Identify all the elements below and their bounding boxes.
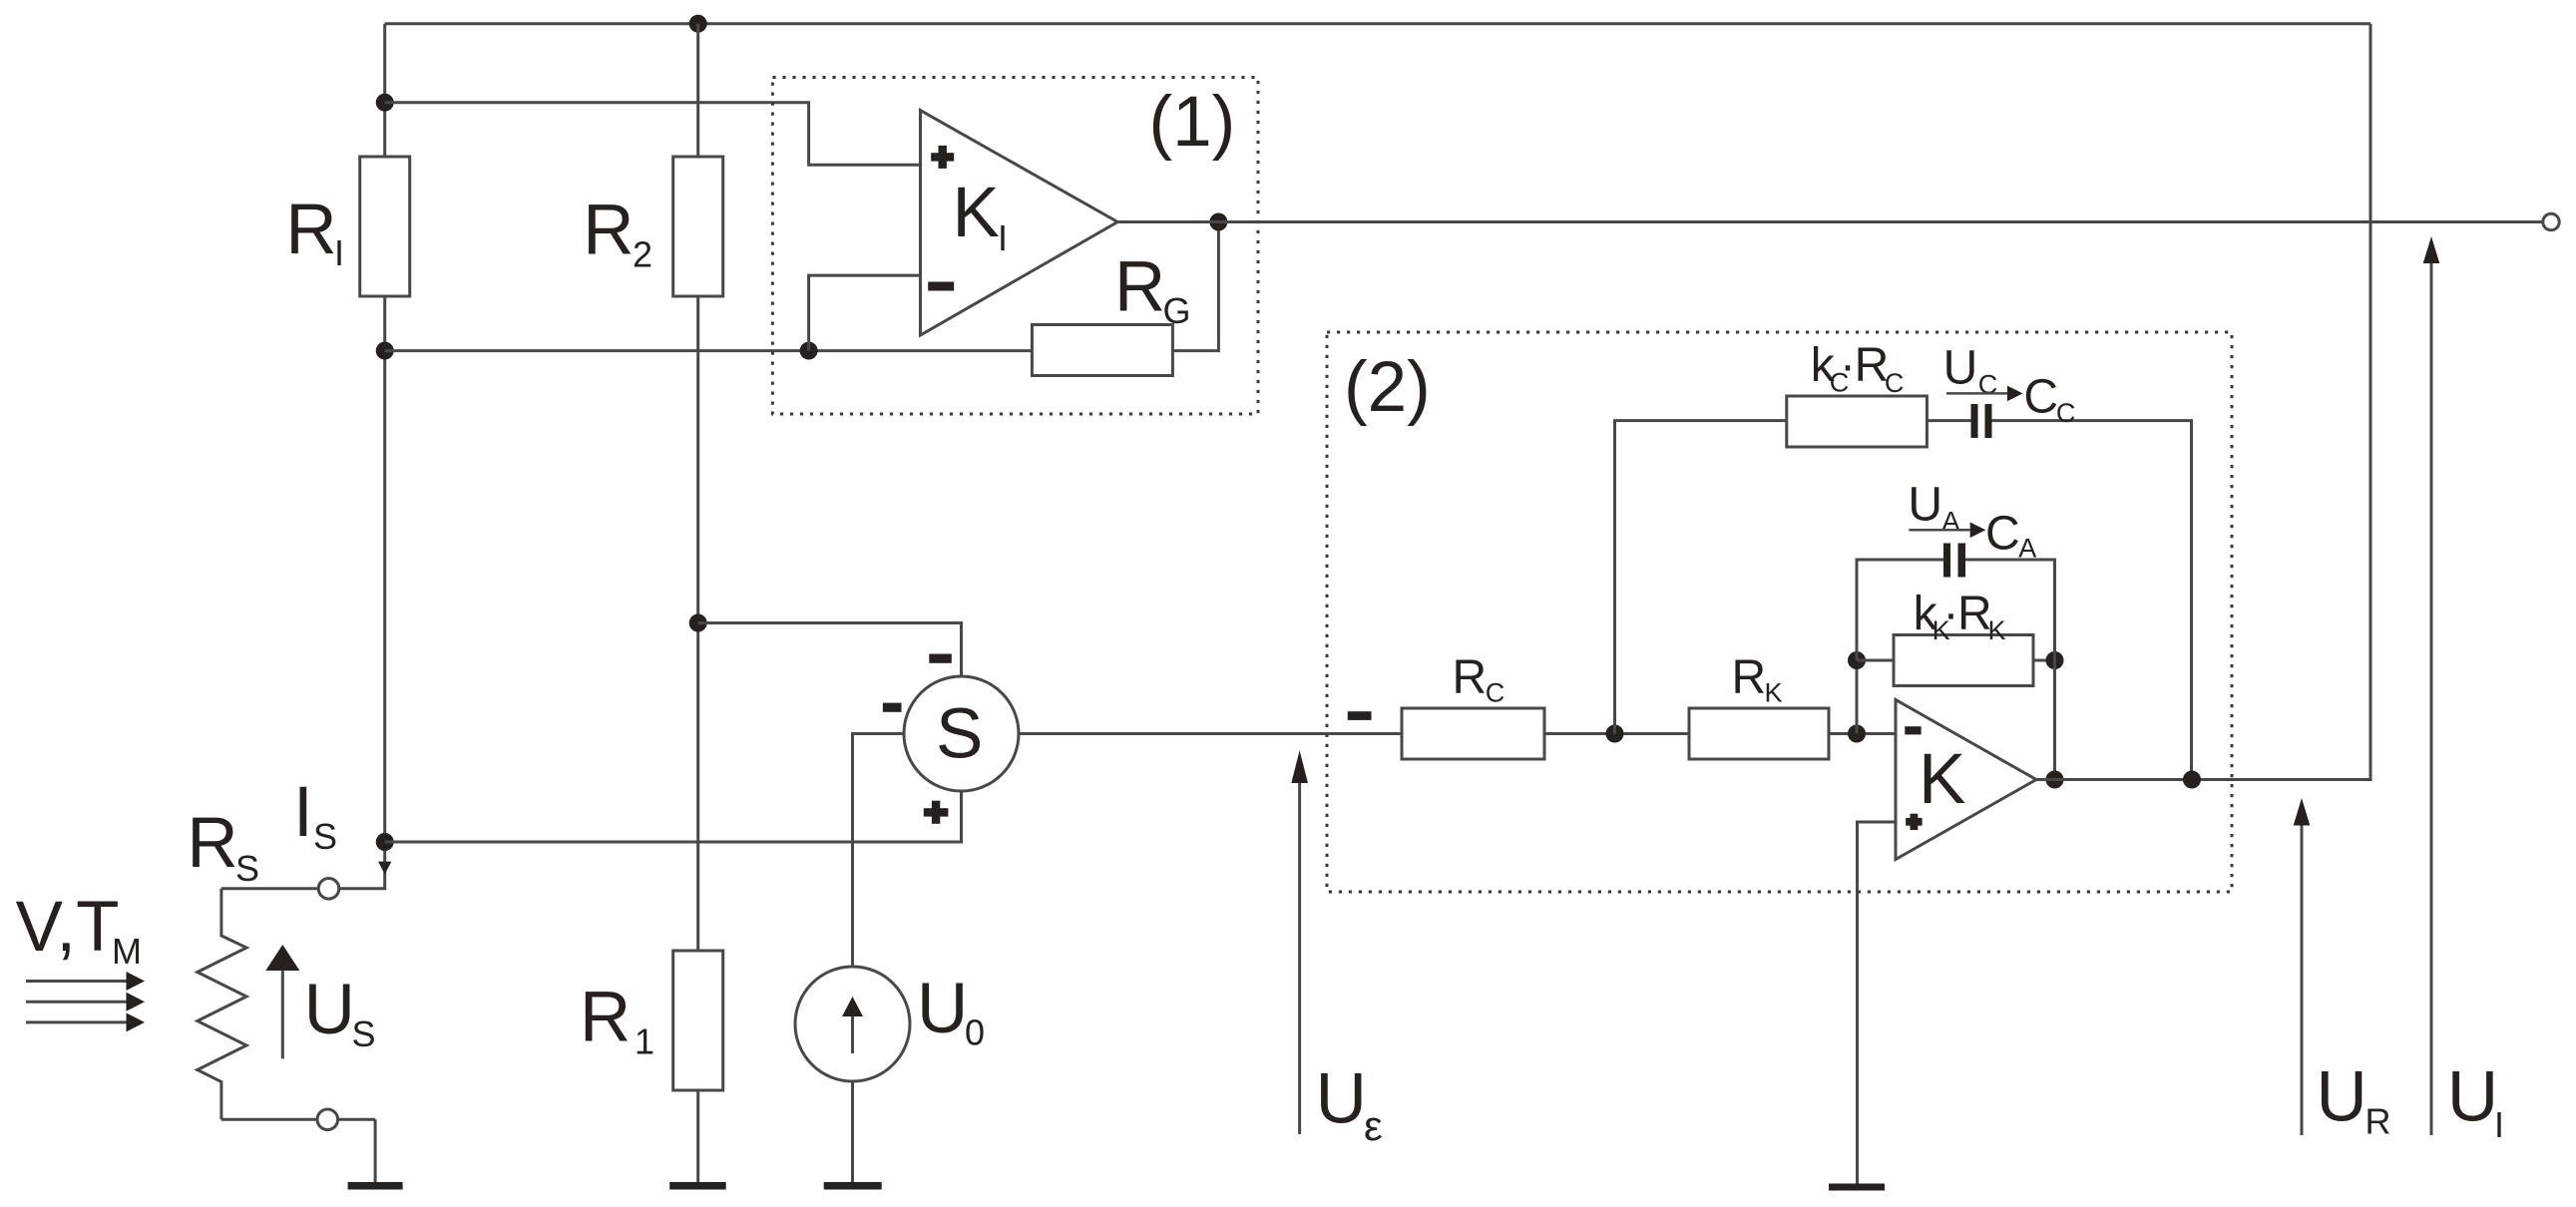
svg-text:R: R (2365, 1101, 2391, 1142)
label CA (1985, 507, 2036, 563)
wire K_I - row (node C to RG) (385, 349, 1033, 352)
node A (top rail / R2 junction) (689, 15, 707, 33)
svg-text:C: C (1985, 507, 2020, 560)
svg-text:U: U (1908, 479, 1942, 532)
wire R2 bottom to R1 top (696, 296, 699, 951)
wire R2 vertical upper (696, 24, 699, 157)
wire S bottom (plus) terminal to IS node (385, 791, 962, 842)
wire S output to RC (1019, 732, 1402, 735)
label RC (1453, 651, 1505, 708)
arrow UR (2294, 798, 2311, 1135)
dashed box (1) (772, 78, 1258, 415)
svg-text:C: C (2023, 371, 2058, 424)
node C (RI bottom / K_I - branch) (376, 342, 394, 360)
svg-text:K: K (953, 174, 1000, 252)
svg-text:U: U (1316, 1060, 1367, 1139)
svg-text:1: 1 (635, 1021, 654, 1062)
svg-text:A: A (2018, 534, 2036, 564)
label UA with arrow (1908, 479, 1985, 539)
node I (K - input) (1848, 725, 1866, 743)
wire node I up to kK·RK (1856, 660, 1859, 734)
arrow US voltage (265, 945, 299, 1058)
resistor RS (zigzag) (198, 889, 246, 1120)
label U0 (917, 970, 985, 1053)
svg-text:C: C (2056, 398, 2076, 428)
svg-text:(2): (2) (1344, 348, 1431, 427)
node G (R2 bottom / S top branch) (689, 614, 707, 632)
label US (304, 971, 376, 1054)
minus sign at block 2 input (1348, 711, 1372, 720)
label RI (285, 191, 344, 273)
wire K_I - input branch (809, 275, 921, 351)
wire RK to K - input (1829, 732, 1896, 735)
label RK (1732, 651, 1783, 708)
svg-text:K: K (1988, 615, 2006, 645)
wire R1 to ground (696, 1090, 699, 1182)
label (2) (1344, 348, 1431, 427)
wire CA left branch (1857, 560, 1943, 660)
svg-text:R: R (285, 191, 336, 269)
node E (inverting branch in block 1) (800, 342, 818, 360)
svg-text:0: 0 (965, 1012, 985, 1053)
node J (kK·RK left) (1848, 651, 1866, 669)
summator S top - sign (929, 654, 952, 663)
wire RS top lead (221, 887, 339, 890)
wire left vertical upper (top rail to RI) (383, 24, 386, 157)
ground under R1 (669, 1182, 726, 1190)
resistor RK (1689, 708, 1829, 759)
wire CA right branch down to K output (1965, 560, 2055, 780)
label R2 (583, 191, 652, 274)
svg-text:2: 2 (633, 233, 652, 274)
wire RG output to K_I output node (1172, 222, 1218, 351)
capacitor CC (1971, 404, 1992, 438)
label IS (293, 773, 337, 857)
wire RC to RK (1544, 732, 1689, 735)
op-amp U2 K triangle (1896, 700, 2036, 860)
label UI (2447, 1058, 2504, 1146)
ground under K + input (1829, 1184, 1885, 1191)
wire RS bottom lead (221, 1118, 375, 1121)
node K2 (kK·RK right) (2046, 651, 2064, 669)
wire S top (minus) terminal (698, 623, 962, 677)
wire left vertical middle (RI bottom to IS node) (339, 296, 385, 889)
wire K output to right feedback (2036, 24, 2370, 780)
svg-text:C: C (1486, 678, 1505, 708)
terminal UI output (open circle) (2543, 213, 2559, 229)
ground under U0 (824, 1182, 882, 1190)
svg-text:I: I (334, 232, 344, 273)
resistor RC (1402, 708, 1544, 759)
node D (IS node) (376, 833, 394, 851)
summator S circle (904, 676, 1019, 791)
node F (K_I output) (1209, 213, 1227, 231)
arrow UI (2423, 236, 2440, 1135)
svg-text:·: · (1840, 339, 1856, 392)
label CC (2023, 371, 2075, 429)
svg-text:R: R (1732, 651, 1767, 704)
svg-text:R: R (1453, 651, 1488, 704)
svg-text:K: K (1765, 678, 1783, 708)
svg-text:U: U (2317, 1058, 2367, 1137)
op-amp U1 K_I triangle (921, 111, 1118, 335)
svg-text:K: K (1919, 740, 1965, 819)
resistor RG (1032, 325, 1172, 376)
svg-text:R: R (1114, 248, 1165, 327)
resistor R2 (673, 157, 723, 296)
svg-text:R: R (187, 804, 237, 883)
svg-text:I: I (998, 217, 1008, 258)
capacitor CA (1943, 544, 1965, 578)
node L (K output) (2046, 771, 2064, 789)
svg-text:G: G (1163, 290, 1191, 331)
svg-text:R: R (580, 979, 631, 1057)
label K op-amp U2 (1919, 740, 1965, 819)
summator S + sign (924, 801, 949, 824)
wire K_I output rail (UI line) (1117, 220, 2543, 223)
op-amp U1 + sign (931, 146, 954, 169)
svg-text:R: R (1957, 588, 1992, 640)
wire kK·RK left lead (1857, 659, 1894, 662)
wire branch to kC·RC (1615, 421, 1787, 734)
source U0 arrow (842, 997, 863, 1053)
label K_I op-amp U1 (953, 174, 1009, 258)
resistor RI (360, 157, 410, 296)
summator S left - sign (883, 703, 902, 712)
svg-text:(1): (1) (1149, 83, 1236, 162)
ground under RS (348, 1182, 403, 1190)
wire top feedback rail (385, 22, 2370, 25)
label RG (1114, 248, 1191, 332)
svg-text:S: S (352, 1013, 376, 1054)
wire CC to right drop (1992, 421, 2192, 780)
svg-text:R: R (583, 191, 634, 269)
svg-text:U: U (304, 971, 355, 1049)
label UR (2317, 1058, 2391, 1142)
svg-text:C: C (1978, 370, 1998, 400)
label R1 (580, 979, 654, 1062)
svg-text:S: S (235, 848, 259, 889)
svg-text:A: A (1941, 507, 1959, 537)
svg-text:S: S (936, 695, 983, 774)
arrows V,TM radiation (26, 972, 145, 1031)
node H (RC/RK junction) (1606, 725, 1624, 743)
label kC.RC (1811, 339, 1905, 398)
label kK.RK (1914, 588, 2006, 645)
op-amp U1 - sign (928, 282, 954, 291)
arrow U_epsilon (1291, 750, 1308, 1134)
label (1) (1149, 83, 1236, 162)
resistor kC·RC (1787, 396, 1928, 447)
label UC with arrow (1943, 342, 2023, 402)
label RS (187, 804, 259, 889)
wire K + input to ground (1858, 822, 1897, 1184)
svg-text:S: S (313, 816, 337, 857)
svg-text:U: U (917, 970, 968, 1048)
svg-text:U: U (2447, 1058, 2498, 1137)
label V,TM (16, 888, 142, 972)
node M (CC drop junction) (2183, 771, 2201, 789)
source U0 circle (795, 967, 910, 1081)
wire K_I + input branch (385, 103, 921, 166)
resistor kK·RK (1894, 635, 2033, 686)
svg-text:V,T: V,T (16, 888, 120, 967)
label U_epsilon (1316, 1060, 1383, 1149)
wire kK·RK right lead (2033, 659, 2055, 662)
svg-text:ε: ε (1364, 1102, 1383, 1149)
wire kC·RC to CC (1927, 419, 1970, 422)
svg-text:I: I (2494, 1104, 2504, 1145)
wire S left (minus) terminal to U0 (853, 734, 905, 968)
terminal RS bottom (open circle) (317, 1109, 338, 1130)
op-amp U2 - sign (1905, 726, 1921, 734)
label S summator (936, 695, 983, 774)
svg-text:M: M (112, 931, 142, 972)
svg-text:C: C (1885, 368, 1905, 398)
wire RS to ground (374, 1119, 377, 1182)
terminal RS top (open circle) (318, 879, 339, 900)
resistor R1 (673, 951, 723, 1090)
dashed box (2) (1327, 332, 2232, 892)
op-amp U2 + sign (1906, 814, 1922, 830)
arrow IS current downward (378, 862, 391, 875)
wire U0 to ground (851, 1081, 854, 1182)
node B (RI top / K_I + branch) (376, 94, 394, 112)
svg-text:I: I (293, 773, 313, 852)
svg-text:U: U (1943, 342, 1978, 395)
